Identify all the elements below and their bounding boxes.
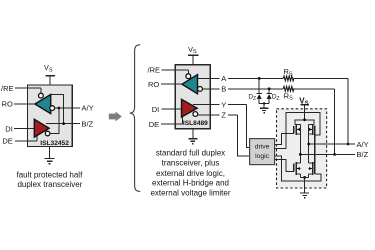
svg-text:DE: DE — [149, 120, 159, 129]
svg-text:external drive logic,: external drive logic, — [156, 169, 225, 178]
svg-text:B/Z: B/Z — [357, 150, 369, 159]
svg-text:A: A — [221, 74, 226, 83]
svg-text:external voltage limiter: external voltage limiter — [150, 188, 230, 197]
svg-text:duplex transceiver: duplex transceiver — [17, 180, 82, 189]
svg-text:A/Y: A/Y — [357, 140, 369, 149]
svg-text:B: B — [221, 85, 226, 94]
svg-text:/RE: /RE — [1, 84, 14, 93]
svg-text:RO: RO — [148, 80, 159, 89]
svg-text:external H-bridge and: external H-bridge and — [152, 179, 229, 188]
svg-text:transceiver, plus: transceiver, plus — [162, 158, 220, 167]
svg-text:logic: logic — [255, 153, 270, 160]
svg-text:DE: DE — [2, 137, 12, 146]
svg-text:drive: drive — [255, 143, 270, 150]
svg-text:ISL8489: ISL8489 — [183, 120, 208, 127]
svg-text:DI: DI — [152, 105, 160, 114]
svg-text:B/Z: B/Z — [82, 119, 94, 128]
svg-text:Y: Y — [221, 100, 226, 109]
svg-text:/RE: /RE — [147, 66, 160, 75]
svg-text:DZ: DZ — [248, 94, 256, 102]
svg-text:DZ: DZ — [272, 94, 280, 102]
svg-text:RO: RO — [2, 100, 13, 109]
svg-text:ISL32452: ISL32452 — [40, 140, 69, 147]
svg-text:Z: Z — [221, 111, 226, 120]
svg-text:standard full duplex: standard full duplex — [156, 148, 225, 157]
svg-text:A/Y: A/Y — [82, 104, 94, 113]
svg-text:DI: DI — [5, 124, 13, 133]
svg-text:fault protected half: fault protected half — [16, 170, 83, 179]
